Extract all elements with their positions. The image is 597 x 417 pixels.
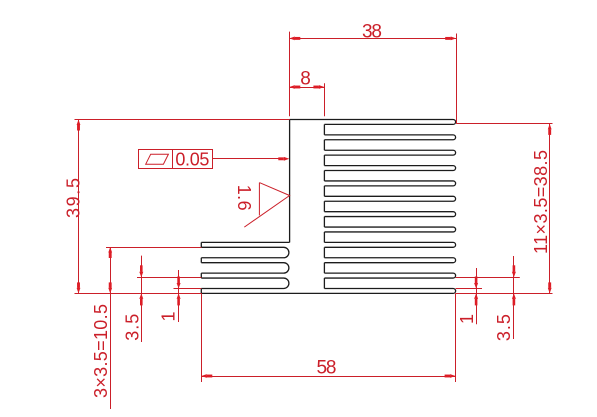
dimension 39.5 extension line top [75,119,290,121]
dimension 8 arrow left [289,85,295,89]
right slot 8 closed end at spine [323,232,325,242]
dimension 3.5 right arrow upper [512,272,516,278]
dimension 3.5 left arrow upper [139,272,143,278]
dimension 39.5 line [78,120,80,294]
right slot 10 closed end at spine [323,263,325,273]
spine left wall [289,120,291,243]
flatness frame box [139,150,213,169]
svg-text:1: 1 [158,311,178,321]
bottom extension line left of part [75,293,202,295]
flatness leader line [213,158,281,160]
dimension 3.5 right extension line [456,277,520,279]
dimension 58 line [201,376,455,378]
dimension 1 right extension line [456,288,482,290]
right slot 9 closed end at spine [323,247,325,257]
right slot 4 closed end at spine [323,170,325,180]
svg-text:3×3.5=10.5: 3×3.5=10.5 [91,304,111,398]
dimension 10.5 arrow top [108,247,112,253]
dimension 38.5 extension line top [456,123,552,125]
dimension 1 left arrow lower [177,293,181,299]
right fin 11 with rounded tip [324,273,455,278]
dimension 10.5 extension line top [106,247,201,249]
dimension 38 extension line right [456,34,458,124]
dimension 38.5 arrow top [548,124,552,129]
dimension 38 line [289,38,456,40]
dimension 38 arrow left [289,37,295,41]
left slot 3 with rounded closed end [201,278,289,288]
svg-text:39.5: 39.5 [63,178,83,218]
dimension 3.5 right line [513,256,515,339]
dimension 1 left extension line [174,288,202,290]
left block top edge [201,241,289,243]
right slot 1 closed end at spine [323,124,325,134]
dimension 1 right arrow lower [474,293,478,299]
dimension 58 extension line right [455,293,457,382]
right fin 4 with rounded tip [324,166,455,171]
dimension 8 arrow right [319,85,325,89]
right slot 3 closed end at spine [323,155,325,165]
dimension 8 extension line right [324,83,326,116]
dimension 3.5 left extension line [137,277,201,279]
surface roughness symbol [244,183,289,228]
dimension 1 left arrow upper [177,283,181,289]
right slot 7 closed end at spine [323,217,325,227]
dimension 39.5 arrow top [77,120,81,126]
dimension 10.5 arrow bottom [108,288,112,294]
part left edge segment 1 [200,242,202,247]
svg-text:58: 58 [317,357,337,378]
right fin 2 with rounded tip [324,135,455,140]
right fin 10 with rounded tip [324,258,455,263]
dimension 58 arrow right [450,374,456,378]
dimension 38.5 arrow bottom [548,288,552,294]
right slot 2 closed end at spine [323,140,325,150]
part left edge segment 3 [200,273,202,278]
dimension 8 line [289,87,324,89]
svg-text:3.5: 3.5 [123,314,143,341]
dimension 1 right arrow upper [474,283,478,289]
svg-text:38: 38 [362,21,382,42]
dimension 10.5 line [110,247,112,409]
right fin 6 with rounded tip [324,196,455,201]
right fin 3 with rounded tip [324,150,455,155]
right fin 9 with rounded tip [324,242,455,247]
svg-text:1: 1 [457,314,477,324]
part left edge segment 2 [200,258,202,263]
flatness parallelogram symbol [146,154,169,164]
dimension 3.5 left line [141,256,143,342]
dimension 38.5 line [549,124,551,294]
right slot 11 closed end at spine [323,278,325,288]
svg-text:1.6: 1.6 [234,185,254,211]
flatness frame divider [172,149,174,168]
bottom extension line right of part [456,293,553,295]
svg-text:11×3.5=38.5: 11×3.5=38.5 [531,150,551,254]
dimension 38 extension line left [289,32,291,117]
right fin 5 with rounded tip [324,181,455,186]
bottom lip fin 12 and base bottom edge [201,289,455,294]
right fin 8 with rounded tip [324,227,455,232]
flatness leader arrow [284,157,290,161]
part left edge segment 4 [200,289,202,294]
svg-text:8: 8 [300,68,311,89]
svg-text:3.5: 3.5 [494,314,514,341]
right slot 6 closed end at spine [323,201,325,211]
dimension 58 extension line left [201,293,203,382]
dimension 1 left line [178,270,180,322]
left slot 1 with rounded closed end [201,247,289,257]
dimension 38 arrow right [451,37,457,41]
dimension 39.5 arrow bottom [77,288,81,294]
dimension 3.5 left arrow lower [139,293,143,299]
dimension 58 arrow left [201,374,207,378]
right slot 5 closed end at spine [323,186,325,196]
left slot 2 with rounded closed end [201,263,289,273]
dimension 1 right line [476,268,478,324]
dimension 3.5 right arrow lower [512,293,516,299]
right fin 7 with rounded tip [324,212,455,217]
svg-text:0.05: 0.05 [175,150,209,170]
part top surface and top fin 1 with rounded tip [290,120,456,125]
